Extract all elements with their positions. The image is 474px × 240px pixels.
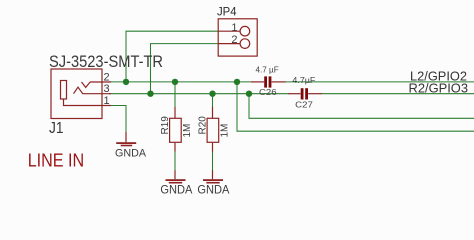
svg-text:2: 2: [104, 72, 110, 84]
svg-text:2: 2: [231, 34, 237, 46]
wire: C26 to right edge (L2/GPIO2): [286, 81, 474, 83]
J1 pin 1 (sleeve) lead: [64, 99, 112, 106]
wire: jack pin2 to C26 (net L2): [109, 81, 251, 83]
junction dot at JP4-1 / L2 wire: [123, 79, 129, 85]
junction dot at branch1 / L2 wire: [234, 79, 240, 85]
junction dot at R19 / L2 wire: [172, 79, 178, 85]
svg-text:4.7µF: 4.7µF: [292, 75, 315, 85]
wire: JP4 pin1 net down to L2 wire: [126, 31, 219, 82]
junction dot at branch2 / R2 wire: [246, 91, 252, 97]
wire: R20 bottom to GNDA: [212, 151, 214, 171]
svg-text:R2/GPIO3: R2/GPIO3: [409, 81, 469, 95]
JP4 pin 2 circle: [240, 39, 250, 49]
svg-text:GNDA: GNDA: [115, 147, 147, 159]
wire: C27 to right edge (R2/GPIO3): [322, 93, 474, 95]
J1 pin 3 (ring switch) lead: [74, 87, 112, 94]
wire: JP4 pin2 net down to R2 wire: [151, 44, 220, 94]
JP4 pin 1 lead: [219, 30, 240, 32]
connector J1 outline: [51, 69, 102, 119]
svg-text:1M: 1M: [182, 124, 193, 138]
JP4 pin 2 lead: [219, 43, 240, 45]
JP4 pin 1 circle: [240, 26, 250, 36]
svg-text:J1: J1: [49, 120, 64, 137]
svg-text:1: 1: [104, 95, 110, 107]
resistor R20: [207, 107, 219, 152]
svg-text:1M: 1M: [220, 124, 231, 138]
svg-text:GNDA: GNDA: [197, 185, 229, 197]
J1 sleeve contact: [61, 81, 67, 100]
junction dot at JP4-2 / R2 wire: [147, 91, 153, 97]
svg-text:C26: C26: [259, 87, 277, 97]
svg-text:JP4: JP4: [217, 7, 237, 19]
svg-text:GNDA: GNDA: [160, 185, 192, 197]
junction dot at R20 / R2 wire: [209, 91, 215, 97]
resistor R19: [170, 107, 182, 152]
svg-text:R19: R19: [160, 116, 171, 135]
wire: R20 top connection: [212, 94, 214, 107]
svg-text:1: 1: [231, 22, 237, 34]
ground GNDA at R20: [203, 170, 223, 183]
svg-text:4.7 µF: 4.7 µF: [256, 65, 279, 75]
wire: jack pin1 to GNDA: [109, 106, 126, 133]
wire: jack pin3 to C27 (net R2): [109, 93, 289, 95]
wire: R19 top connection: [174, 82, 176, 107]
wire: branch from L2 wire to lower right bus: [237, 82, 474, 131]
svg-text:SJ-3523-SMT-TR: SJ-3523-SMT-TR: [49, 52, 163, 71]
ground GNDA at R19: [166, 170, 186, 183]
svg-text:C27: C27: [295, 100, 313, 110]
wire: branch from R2 wire to lower right bus: [249, 94, 474, 119]
svg-text:R20: R20: [198, 116, 209, 135]
ground GNDA at J1: [116, 132, 136, 146]
wire: R19 bottom to GNDA: [174, 151, 176, 171]
connector JP4 outline: [218, 19, 257, 56]
svg-text:3: 3: [104, 83, 110, 95]
J1 pin 2 (tip) lead: [82, 82, 112, 87]
capacitor C27: [288, 88, 322, 99]
capacitor C26: [251, 76, 286, 87]
svg-text:LINE IN: LINE IN: [28, 151, 84, 171]
